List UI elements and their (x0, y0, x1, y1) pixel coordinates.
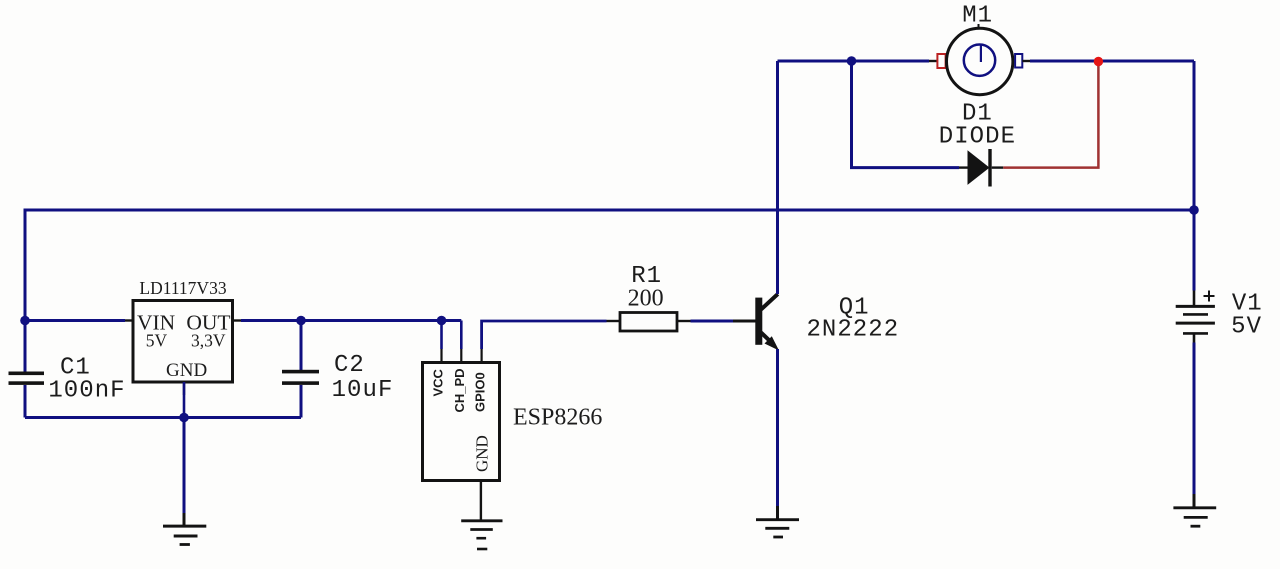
svg-text:VCC: VCC (430, 368, 445, 396)
ground symbol below Q1 (756, 506, 799, 537)
wire: motor right to V1 rail (1030, 60, 1194, 63)
wire: C1 bottom lead (24, 385, 27, 418)
IC U2 ESP8266 box (423, 363, 500, 481)
wire: diode branch vertical (852, 61, 960, 168)
svg-text:CH_PD: CH_PD (452, 368, 467, 412)
svg-text:M1: M1 (962, 3, 993, 30)
wire: ESP GND pin to ground (480, 481, 482, 520)
junction dot node VIN (20, 316, 30, 326)
wire: GPIO0 pin wire (482, 321, 607, 349)
ground symbol below ESP8266 (461, 521, 502, 549)
junction dot node V1+/rail (1189, 205, 1199, 215)
wire: VIN black stub (125, 319, 133, 321)
wire: R1 right black stub (677, 320, 691, 322)
capacitor C2 (282, 370, 319, 385)
junction dot node OUT/C2 (296, 316, 306, 326)
svg-text:GPIO0: GPIO0 (473, 372, 488, 412)
wire: VIN pin wire (25, 319, 125, 322)
transistor Q1 2N2222 (755, 294, 779, 351)
capacitor C1 (9, 372, 45, 385)
wire: R1 left black stub (607, 320, 621, 322)
motor M1 (929, 24, 1030, 95)
resistor R1 (620, 313, 677, 332)
junction dot red node motor+ (1094, 57, 1103, 66)
svg-text:200: 200 (628, 286, 664, 312)
svg-text:5V: 5V (1231, 314, 1262, 341)
battery V1 (1176, 291, 1215, 343)
wire: Q1 collector up (776, 61, 779, 294)
wire: regulator GND pin stub (183, 382, 185, 395)
wire: C2 top lead (300, 321, 303, 371)
svg-text:GND: GND (473, 435, 492, 472)
pin stub VCC (440, 349, 442, 363)
svg-text:2N2222: 2N2222 (806, 316, 899, 343)
svg-text:100nF: 100nF (48, 377, 125, 404)
ground symbol below regulator (163, 513, 206, 545)
svg-text:C2: C2 (334, 352, 365, 379)
wire: V1 right rail (1193, 61, 1196, 291)
diode D1 (959, 149, 1003, 187)
wire: C2 bottom lead (300, 385, 303, 418)
ground symbol below V1 (1173, 494, 1216, 526)
junction dot node motor-/diode (847, 56, 857, 66)
svg-text:10uF: 10uF (332, 377, 394, 404)
pin stub GPIO0 (481, 349, 483, 363)
svg-text:ESP8266: ESP8266 (513, 405, 602, 431)
wire: collector to motor left (778, 60, 930, 63)
wire: net VCC top rail y=210 (25, 210, 1194, 372)
wire: Q1 emitter down (776, 349, 779, 506)
wire: GND bottom rail (25, 416, 301, 419)
wire: R1 to Q1 base navy (691, 320, 734, 323)
junction dot node VCC/ESP (437, 316, 447, 326)
wire: diode cathode red wire (1003, 63, 1098, 168)
junction dot node GND rail (179, 413, 189, 423)
wire: net 3V3 rail (241, 319, 461, 322)
svg-text:5V: 5V (146, 331, 168, 351)
svg-text:GND: GND (166, 360, 207, 381)
pin stub CH_PD (460, 349, 462, 363)
wire: regulator GND pin to rail (183, 382, 186, 418)
wire: VCC pin wire (440, 321, 443, 350)
wire: CH_PD pin wire (460, 321, 463, 350)
svg-text:LD1117V33: LD1117V33 (139, 278, 226, 298)
regulator U LD1117V33 box (133, 301, 233, 383)
wire: OUT black stub (233, 319, 242, 321)
wire: rail to ground symbol (183, 418, 186, 514)
svg-text:DIODE: DIODE (939, 123, 1016, 150)
svg-text:3,3V: 3,3V (191, 331, 226, 351)
wire: Q1 base black lead (733, 320, 756, 323)
wire: battery minus down (1193, 343, 1196, 495)
